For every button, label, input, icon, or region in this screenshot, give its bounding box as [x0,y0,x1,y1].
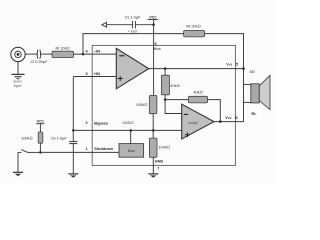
wire 100k to shutdown line [39,143,41,152]
wire VCC node to Cs [136,24,154,26]
wire bias tap to bias block [130,130,132,143]
svg-text:7: 7 [157,165,159,170]
wire divider mid [152,114,154,131]
resistor Rf [184,30,205,37]
svg-text:Bypass: Bypass [94,120,108,125]
resistor 100k shutdown [38,132,43,143]
wire Ri to -IN pin 4 [74,53,117,55]
svg-text:GND: GND [155,158,164,163]
svg-text:Bias: Bias [128,149,135,153]
wire node to amp2 -IN [165,100,182,114]
svg-text:100kΩ: 100kΩ [21,135,32,140]
resistor 100k lower divider [149,138,157,157]
svg-text:Amp2: Amp2 [188,121,197,125]
speaker LS1 [251,75,270,109]
resistor 100k upper divider [149,95,157,113]
svg-text:40kΩ: 40kΩ [170,83,179,88]
node shutdown junction [39,151,42,154]
wire speaker vertical [243,69,245,122]
svg-text:Cb 1.0µF: Cb 1.0µF [51,136,68,141]
wire 40k tap down [164,69,166,76]
svg-text:Ri 10kΩ: Ri 10kΩ [55,46,69,51]
IC boundary box U1 [92,45,235,165]
wire node to 40k feedback [165,99,188,101]
svg-text:100kΩ: 100kΩ [158,144,169,149]
svg-text:Vo2: Vo2 [225,115,231,120]
power flag VCC shutdown pullup [36,118,45,132]
wire bypass node to pin 2 [73,129,92,131]
wire Rf to Vo1 node [205,34,244,69]
svg-text:8Ω: 8Ω [250,69,255,74]
ground arrow left Cs [102,22,107,27]
node VCC supply junction [152,23,155,26]
wire VCC rail to pin 6 [153,25,155,46]
svg-text:RL: RL [251,111,257,116]
wire Cs to ground [107,24,133,26]
op-amp Amp1 [116,48,149,88]
svg-text:VCC: VCC [149,14,157,19]
wire bypass line inside [92,129,182,131]
wire to GND pin 7 [152,157,154,173]
wire Ci to Ri [41,53,52,55]
svg-text:100kΩ: 100kΩ [136,102,147,107]
wire +IN to amp1 [73,76,116,78]
wire shutdown to pin 1 [40,151,92,153]
wire speaker top stub [244,83,251,85]
node Vo1 feedback corner [242,67,245,70]
svg-text:Rf 20kΩ: Rf 20kΩ [186,24,200,29]
wire Amp2 output Vo2 [214,121,244,123]
ground Cb [68,174,78,178]
svg-text:Ci 0.39µF: Ci 0.39µF [31,59,49,64]
node amp2 -IN junction [164,98,167,101]
node Vo1 to 40k tap [164,67,167,70]
node bias tap [129,129,132,132]
switch S1 [18,150,40,153]
resistor 40k internal upper [161,75,169,95]
resistor Ri [52,51,74,57]
svg-text:Shutdown: Shutdown [94,146,113,151]
capacitor Ci [37,50,40,59]
svg-text:VCC: VCC [37,118,45,123]
wire VCC rail inside IC [153,45,155,95]
capacitor Cs [133,21,136,28]
wire jack to Ci [25,53,37,55]
wire shutdown to bias [92,151,119,153]
capacitor Cb [69,130,77,173]
wire 40k to amp2 -IN node [164,95,166,100]
wire +IN external riser to bypass node [72,77,74,131]
svg-text:+Tant: +Tant [128,30,138,34]
svg-text:+IN: +IN [94,71,100,76]
svg-text:VDD/2: VDD/2 [122,120,134,125]
svg-text:40kΩ: 40kΩ [193,89,202,94]
wire speaker bottom stub [244,101,251,103]
resistor 40k internal feedback [188,96,207,103]
svg-text:Cs 1.0µF: Cs 1.0µF [125,15,141,20]
ground pin 7 [148,174,158,178]
svg-text:Audio: Audio [12,79,22,83]
svg-text:Vo1: Vo1 [226,61,232,66]
svg-text:−IN: −IN [94,49,100,54]
power flag VCC top [148,14,158,24]
wire divider mid to lower [152,130,154,138]
wire 40k feedback to Vo2 [208,100,221,122]
node bypass external [72,129,75,132]
ground switch [13,152,23,176]
wire Amp1 output Vo1 [149,68,244,70]
connector J1 audio input jack [11,47,25,61]
op-amp Amp2 [182,104,214,139]
ground audio input [12,62,25,79]
svg-text:VCC: VCC [154,46,162,51]
block Bias [119,144,144,158]
node feedback junction at -IN [82,53,85,56]
svg-text:Input: Input [12,84,22,88]
wire feedback riser [83,34,184,55]
node Vo2 feedback junction [219,120,222,123]
label Audio Input [12,79,22,88]
node divider mid [152,129,155,132]
